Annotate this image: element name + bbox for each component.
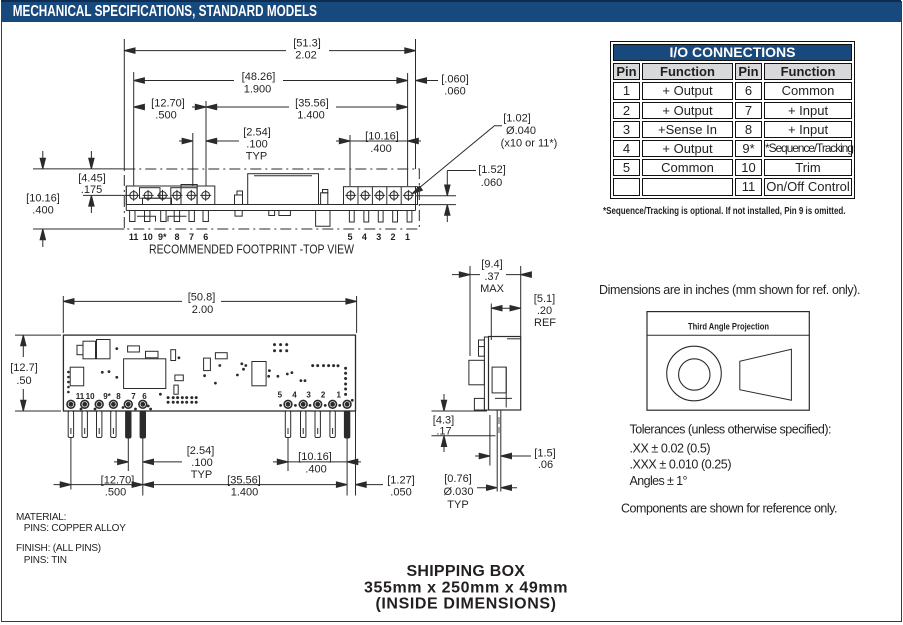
arrowheads dim 9.4 xyxy=(459,272,470,277)
small part left of big rect xyxy=(235,195,243,205)
material notes xyxy=(16,512,126,566)
svg-text:7: 7 xyxy=(131,392,136,401)
svg-text:[50.8]: [50.8] xyxy=(188,292,216,304)
pin 2 below xyxy=(330,411,335,438)
ext pin1 bottom xyxy=(346,438,348,496)
svg-text:Tolerances (unless otherwise s: Tolerances (unless otherwise specified): xyxy=(630,423,832,437)
pad 2 xyxy=(389,190,400,201)
svg-text:.050: .050 xyxy=(390,487,411,499)
bottom small parts center xyxy=(235,211,290,217)
component c1 xyxy=(171,350,176,361)
svg-text:2: 2 xyxy=(321,391,326,400)
pad 3 xyxy=(374,190,385,201)
svg-text:[4.45]: [4.45] xyxy=(78,173,106,185)
end view top step line xyxy=(507,338,521,340)
svg-text:2.02: 2.02 xyxy=(295,50,316,62)
svg-text:[1.27]: [1.27] xyxy=(387,475,415,487)
bottom pins right group xyxy=(349,211,412,223)
component c2 xyxy=(174,385,178,394)
arrowheads dim .100 typ xyxy=(182,138,193,143)
via dots near left pads xyxy=(80,408,83,411)
svg-text:[10.16]: [10.16] xyxy=(298,451,332,463)
component r2 xyxy=(146,351,159,358)
svg-text:.500: .500 xyxy=(155,110,176,122)
leader arrowhead xyxy=(412,186,422,194)
dim .400 bottom line xyxy=(273,461,361,463)
ext module right bottom xyxy=(355,411,357,496)
svg-text:Third Angle Projection: Third Angle Projection xyxy=(688,322,769,333)
pin 11 below xyxy=(68,411,73,438)
ext pin5 bottom xyxy=(287,438,289,472)
projection cone xyxy=(740,349,792,400)
pad 5 xyxy=(345,190,356,201)
dim .400 top line xyxy=(336,140,421,142)
svg-text:11: 11 xyxy=(76,392,85,401)
pin pad 10 top view xyxy=(81,400,89,408)
component xfmr a xyxy=(83,341,96,359)
svg-text:4: 4 xyxy=(362,232,367,242)
pin 6 below (solid) xyxy=(140,411,145,438)
dim 9.4 line xyxy=(452,274,521,276)
dim 1.5 left ext xyxy=(489,415,491,466)
svg-text:9*: 9* xyxy=(103,392,111,401)
svg-text:355mm x 250mm x 49mm: 355mm x 250mm x 49mm xyxy=(364,579,568,596)
dim 51.3 line xyxy=(124,50,415,52)
arrowheads dim 0.030 xyxy=(487,485,498,490)
dim .500 bottom line xyxy=(54,484,143,486)
arrowheads dim 12.7 xyxy=(21,335,26,346)
small part cap xyxy=(237,191,243,195)
ext pin6 bottom xyxy=(142,438,144,496)
connector inner rect b xyxy=(143,198,172,204)
svg-text:.500: .500 xyxy=(105,487,126,499)
dim 1.400 bottom line xyxy=(143,484,347,486)
svg-text:[9.4]: [9.4] xyxy=(481,259,502,271)
connector inner rect a xyxy=(140,188,161,199)
svg-text:TYP: TYP xyxy=(447,499,468,511)
svg-text:.20: .20 xyxy=(537,305,552,317)
svg-text:[1.5]: [1.5] xyxy=(534,448,555,460)
pin inner ticks xyxy=(71,428,333,434)
component lid line xyxy=(254,175,312,177)
svg-text:SHIPPING BOX: SHIPPING BOX xyxy=(406,563,525,580)
svg-text:1: 1 xyxy=(336,391,341,400)
projection ring inner xyxy=(679,359,710,390)
svg-text:[48.26]: [48.26] xyxy=(242,71,276,83)
svg-text:.100: .100 xyxy=(246,139,267,151)
component ic big xyxy=(124,359,166,389)
svg-text:[5.1]: [5.1] xyxy=(534,293,555,305)
component r3 xyxy=(175,375,183,381)
module top view outline xyxy=(63,335,355,411)
svg-text:[0.76]: [0.76] xyxy=(444,473,472,485)
arrowheads dim .100 bottom xyxy=(118,459,129,464)
dim 50.8 line xyxy=(63,300,356,302)
svg-text:8: 8 xyxy=(116,392,121,401)
svg-text:TYP: TYP xyxy=(246,151,267,163)
small part right of big rect xyxy=(321,193,328,205)
svg-text:6: 6 xyxy=(203,232,208,242)
svg-text:.400: .400 xyxy=(32,205,53,217)
dim 1.52 arrow stems xyxy=(447,171,476,223)
svg-text:[51.3]: [51.3] xyxy=(293,38,321,50)
pin pad 8 top view xyxy=(110,400,118,408)
module band top view: left pad connector box xyxy=(126,186,215,205)
arrowheads dim .500 top xyxy=(134,104,145,109)
arrowheads dim 4.3 xyxy=(441,400,446,411)
module left edge xyxy=(125,186,127,211)
svg-text:MAX: MAX xyxy=(480,283,505,295)
arrowheads dim 50.8 xyxy=(63,299,74,304)
pad 7 xyxy=(186,190,197,201)
svg-text:1.400: 1.400 xyxy=(297,110,325,122)
svg-text:8: 8 xyxy=(174,232,179,242)
svg-text:.37: .37 xyxy=(484,271,499,283)
arrowheads dim .400 bottom xyxy=(277,459,288,464)
svg-text:1.900: 1.900 xyxy=(244,84,272,96)
pin pad 7 top view xyxy=(124,400,132,408)
svg-text:(INSIDE DIMENSIONS): (INSIDE DIMENSIONS) xyxy=(375,596,556,613)
svg-text:[10.16]: [10.16] xyxy=(26,193,60,205)
pad 8 xyxy=(171,190,182,201)
dim 1.400 top line xyxy=(206,106,408,108)
svg-text:.XXX ± 0.010 (0.25): .XXX ± 0.010 (0.25) xyxy=(630,458,732,472)
svg-text:1.400: 1.400 xyxy=(231,487,259,499)
component big rect xyxy=(248,174,319,205)
svg-text:[12.7]: [12.7] xyxy=(10,362,38,374)
svg-text:[12.70]: [12.70] xyxy=(151,98,185,110)
extension line pin11 xyxy=(133,72,135,186)
pin pad 6 top view xyxy=(139,400,147,408)
dim .060 top tail xyxy=(424,80,438,82)
svg-text:.400: .400 xyxy=(370,143,391,155)
pin 7 below (solid) xyxy=(126,411,131,438)
svg-text:*Sequence/Tracking is optional: *Sequence/Tracking is optional. If not i… xyxy=(603,206,846,217)
dim .100 typ bottom line xyxy=(114,461,182,463)
extension line module left xyxy=(123,39,125,169)
pin pad 11 top view xyxy=(67,400,75,408)
pad 9 xyxy=(157,190,168,201)
end view inner bottom line xyxy=(495,397,512,399)
svg-text:Angles ± 1°: Angles ± 1° xyxy=(630,474,688,488)
svg-text:5: 5 xyxy=(278,391,283,400)
leader 0.040 xyxy=(414,126,503,193)
via dots top right cluster xyxy=(273,343,276,346)
pin pad 2 top view xyxy=(329,400,337,408)
band line 1 xyxy=(126,204,415,206)
extension line pin7 xyxy=(192,133,194,186)
svg-text:2.00: 2.00 xyxy=(192,304,213,316)
arrowheads dim 1.400 bottom xyxy=(132,482,143,487)
bottom feet left xyxy=(137,216,187,221)
dim 48.26 line xyxy=(134,80,408,82)
svg-text:RECOMMENDED FOOTPRINT -TOP VIE: RECOMMENDED FOOTPRINT -TOP VIEW xyxy=(149,242,355,257)
projection box header line xyxy=(647,334,809,336)
svg-text:2: 2 xyxy=(390,232,395,242)
pad 4 xyxy=(360,190,371,201)
svg-text:.060: .060 xyxy=(481,177,502,189)
svg-text:[1.52]: [1.52] xyxy=(478,164,506,176)
svg-text:9*: 9* xyxy=(158,232,167,242)
svg-text:Ø.030: Ø.030 xyxy=(444,486,474,498)
arrowheads left dims xyxy=(40,158,45,169)
svg-text:TYP: TYP xyxy=(191,469,212,481)
dim .050 bottom tail xyxy=(356,484,384,486)
end view pin strip xyxy=(484,337,488,410)
dim 4.3 ext lines xyxy=(432,411,496,436)
dim 4.3 arrow stems xyxy=(443,394,445,452)
svg-text:(x10 or 11*): (x10 or 11*) xyxy=(501,138,558,150)
component r1 xyxy=(128,346,140,352)
end view inner component xyxy=(492,367,506,393)
svg-text:[2.54]: [2.54] xyxy=(187,445,215,457)
svg-text:.XX ± 0.02 (0.5): .XX ± 0.02 (0.5) xyxy=(630,441,711,455)
dim .500 top line xyxy=(134,106,206,108)
svg-text:5: 5 xyxy=(347,232,352,242)
svg-text:10: 10 xyxy=(143,232,153,242)
left ext line bottom xyxy=(33,228,124,230)
projection ring outer xyxy=(667,346,722,401)
svg-text:4: 4 xyxy=(292,391,297,400)
end view top-left part xyxy=(479,340,485,356)
dim 12.7 line xyxy=(22,335,24,411)
bottom pins left group xyxy=(130,211,209,222)
svg-text:[35.56]: [35.56] xyxy=(227,475,261,487)
component xfmr tab xyxy=(77,345,83,354)
svg-text:Dimensions are in inches (mm s: Dimensions are in inches (mm shown for r… xyxy=(599,283,861,297)
svg-text:[1.02]: [1.02] xyxy=(503,113,531,125)
svg-text:[2.54]: [2.54] xyxy=(243,127,271,139)
title bar xyxy=(1,0,901,22)
arrowhead dim .050 xyxy=(356,482,367,487)
left ext line pads xyxy=(83,194,129,196)
module right edge xyxy=(415,186,417,211)
arrowheads dim 1.52 xyxy=(445,185,450,196)
svg-text:6: 6 xyxy=(142,392,147,401)
svg-text:[35.56]: [35.56] xyxy=(295,98,329,110)
svg-text:10: 10 xyxy=(86,392,95,401)
end view body xyxy=(489,337,521,411)
dim 9.4 ext lines xyxy=(470,266,521,356)
arrowheads dim 1.400 top xyxy=(206,104,217,109)
svg-text:3: 3 xyxy=(376,232,381,242)
svg-text:Components are shown for refer: Components are shown for reference only. xyxy=(621,502,838,516)
arrowheads dim 1.5 xyxy=(479,453,490,458)
extension line pin5 xyxy=(349,135,351,186)
end view top-left part line xyxy=(479,346,485,348)
pad 1 xyxy=(403,190,414,201)
via dots bottom center grid xyxy=(167,396,170,399)
extension line pin1 xyxy=(407,73,409,186)
svg-text:.060: .060 xyxy=(444,86,465,98)
pin pad 4 top view xyxy=(299,400,307,408)
svg-text:[.060]: [.060] xyxy=(441,74,469,86)
via dots scattered xyxy=(115,347,118,350)
left ext line top xyxy=(33,168,124,170)
extension line pin6 xyxy=(205,101,207,186)
pin 4 below xyxy=(301,411,306,438)
via dots left column xyxy=(67,371,70,374)
svg-text:.100: .100 xyxy=(191,457,212,469)
pin 8 below xyxy=(111,411,116,438)
bottom tab xyxy=(316,211,330,227)
svg-text:.17: .17 xyxy=(436,426,451,438)
dim .100 typ line xyxy=(179,140,239,142)
pad 6 xyxy=(200,190,211,201)
small part cap2 xyxy=(323,190,328,193)
component cap left xyxy=(70,367,84,386)
left arrows tails xyxy=(43,151,92,247)
via dots near right pads xyxy=(279,404,282,407)
footprint outline (dash-dot) xyxy=(124,169,419,229)
component r4 xyxy=(215,353,227,359)
end view pin dash xyxy=(498,417,500,433)
svg-text:7: 7 xyxy=(189,232,194,242)
dim 1.5 line xyxy=(475,455,531,457)
arrowheads dim 48.26 xyxy=(134,78,145,83)
pin 9 below xyxy=(97,411,102,438)
connector inner rect c xyxy=(171,188,197,205)
svg-text:.06: .06 xyxy=(538,459,553,471)
I/O CONNECTIONS table xyxy=(610,41,855,199)
arrowheads dim .500 bottom xyxy=(60,482,71,487)
svg-text:[12.70]: [12.70] xyxy=(101,475,135,487)
extension line module right xyxy=(415,39,417,169)
pad 10 xyxy=(143,190,154,201)
pin pad 3 top view xyxy=(314,400,322,408)
component cap right xyxy=(252,362,266,386)
svg-text:Ø.040: Ø.040 xyxy=(506,125,536,137)
svg-text:.175: .175 xyxy=(81,184,102,196)
right ext pads line xyxy=(416,195,457,197)
end view inner vertical xyxy=(505,367,507,407)
right pad separators xyxy=(358,187,401,205)
pin pad 1 top view xyxy=(343,400,351,408)
band line 2 xyxy=(126,210,415,212)
arrowheads dim .400 top xyxy=(339,138,350,143)
pin pad 9 top view xyxy=(95,400,103,408)
svg-text:REF: REF xyxy=(534,317,556,329)
pin 10 below xyxy=(82,411,87,438)
end view bottom-left part xyxy=(474,398,484,410)
end view left tab xyxy=(469,360,485,385)
ext pin7 bottom xyxy=(127,438,129,471)
component xfmr b xyxy=(97,340,111,359)
arrowhead dim .060 top xyxy=(416,78,427,83)
pad 11 xyxy=(128,190,139,201)
svg-text:.50: .50 xyxy=(16,375,31,387)
pin 5 below xyxy=(285,411,290,438)
pin 3 below xyxy=(315,411,320,438)
end view pin xyxy=(497,410,501,492)
pin pad 5 top view xyxy=(284,400,292,408)
dim 5.1 line xyxy=(491,307,520,309)
right pad box xyxy=(344,187,418,205)
arrowheads dim 5.1 xyxy=(491,306,502,311)
dim 0.030 line xyxy=(477,487,517,489)
dim 5.1 ext line xyxy=(490,304,492,341)
svg-text:[10.16]: [10.16] xyxy=(365,131,399,143)
component c3 xyxy=(204,358,211,371)
pin 1 below (solid) xyxy=(344,411,349,438)
dim 12.7 ext lines xyxy=(15,335,61,411)
third angle projection box xyxy=(647,312,809,411)
via dots right arc xyxy=(311,364,314,367)
arrowheads dim 51.3 xyxy=(124,48,135,53)
connector inner rect d xyxy=(181,185,197,205)
dim 50.8 ext lines xyxy=(63,296,356,333)
ext pin11 bottom xyxy=(70,438,72,490)
svg-text:1: 1 xyxy=(405,232,410,242)
right ext band line xyxy=(420,204,457,206)
svg-text:.400: .400 xyxy=(305,464,326,476)
svg-text:11: 11 xyxy=(129,232,139,242)
svg-text:3: 3 xyxy=(306,391,311,400)
